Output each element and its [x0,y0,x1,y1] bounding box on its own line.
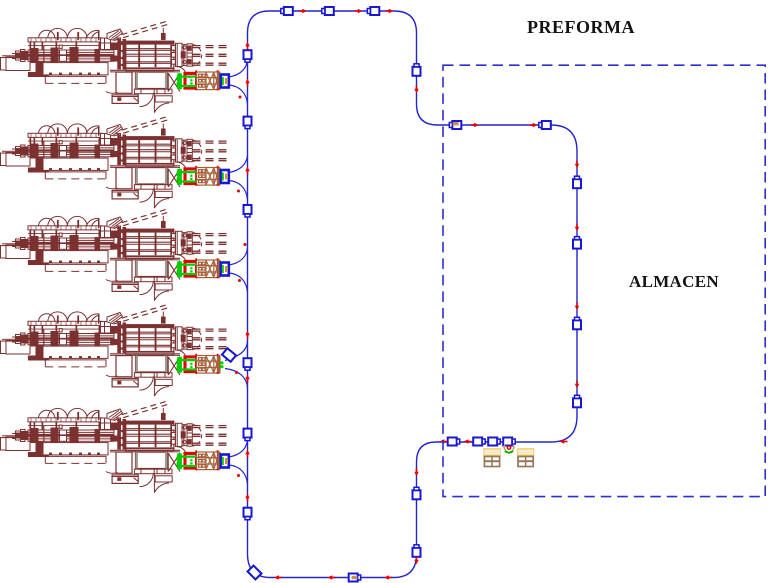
loaded cart cargo bottom [352,576,358,579]
junction curves machine M2 [229,156,248,173]
direction arrow [384,575,392,579]
junction red marker [244,243,247,246]
junction red marker [239,96,242,99]
conveyor cart [473,438,485,446]
direction arrow [245,42,249,50]
direction arrow [575,381,579,389]
diamond cart at machine M4 station [222,348,236,362]
junction curves machine M1 [229,60,248,77]
direction arrow [414,86,418,94]
direction arrow [245,331,249,339]
junction curves machine M3 [229,248,248,265]
direction arrow [245,375,249,383]
direction arrow [245,450,249,458]
conveyor cart [244,358,252,370]
conveyor cart [244,508,252,520]
direction arrow [464,439,472,443]
conveyor cart [413,545,421,557]
svg-text:PREFORMA: PREFORMA [527,17,635,37]
conveyor cart [503,438,515,446]
direction arrow [414,557,418,565]
almacen dashed boundary [443,65,765,496]
conveyor cart [573,176,581,188]
loaded cart cargo [453,122,459,125]
output box machine M1 [221,75,229,88]
injection molding machine M3 [1,210,232,301]
injection molding machine M2 [1,117,232,208]
direction arrow [274,575,282,579]
conveyor cart [367,7,379,15]
junction red marker [238,279,241,282]
junction red marker [237,190,240,193]
direction arrow [245,494,249,502]
conveyor cart [244,429,252,441]
direction arrow [440,439,448,443]
diamond cart at bottom-left corner [248,566,262,580]
junction red marker [235,371,238,374]
direction arrow [386,9,394,13]
conveyor cart [488,438,500,446]
junction curves machine M5 [229,440,248,457]
conveyor loop wire [248,11,578,578]
pallet stack 1 [484,449,501,467]
conveyor cart [573,317,581,329]
conveyor cart [573,395,581,407]
conveyor cart [322,7,334,15]
direction arrow [560,439,568,443]
junction red marker [237,474,240,477]
direction arrow [328,575,336,579]
direction arrow [299,9,307,13]
direction arrow [414,469,418,477]
conveyor cart [539,121,551,129]
direction arrow [355,9,363,13]
pallet stack 2 [517,449,534,467]
direction arrow [575,303,579,311]
conveyor cart [449,121,461,129]
operator / rotary unit [504,445,514,453]
junction curves machine M4 [225,341,248,361]
conveyor cart [413,487,421,499]
conveyor cart [573,237,581,249]
output box machine M5 [221,455,229,468]
conveyor cart [244,117,252,129]
output box machine M2 [221,170,229,183]
conveyor cart [244,205,252,217]
direction arrow [575,224,579,232]
direction arrow [575,161,579,169]
svg-text:ALMACEN: ALMACEN [629,272,719,291]
injection molding machine M1 [1,22,232,113]
conveyor cart [281,7,293,15]
conveyor cart [448,438,460,446]
injection molding machine M5 [1,402,232,493]
direction arrow [471,123,479,127]
conveyor cart [413,64,421,76]
direction arrow [530,123,538,127]
injection molding machine M4 [1,305,232,396]
direction arrow [245,167,249,175]
direction arrow [245,79,249,87]
conveyor cart [349,574,361,582]
conveyor cart [244,50,252,62]
output box machine M3 [221,263,229,276]
